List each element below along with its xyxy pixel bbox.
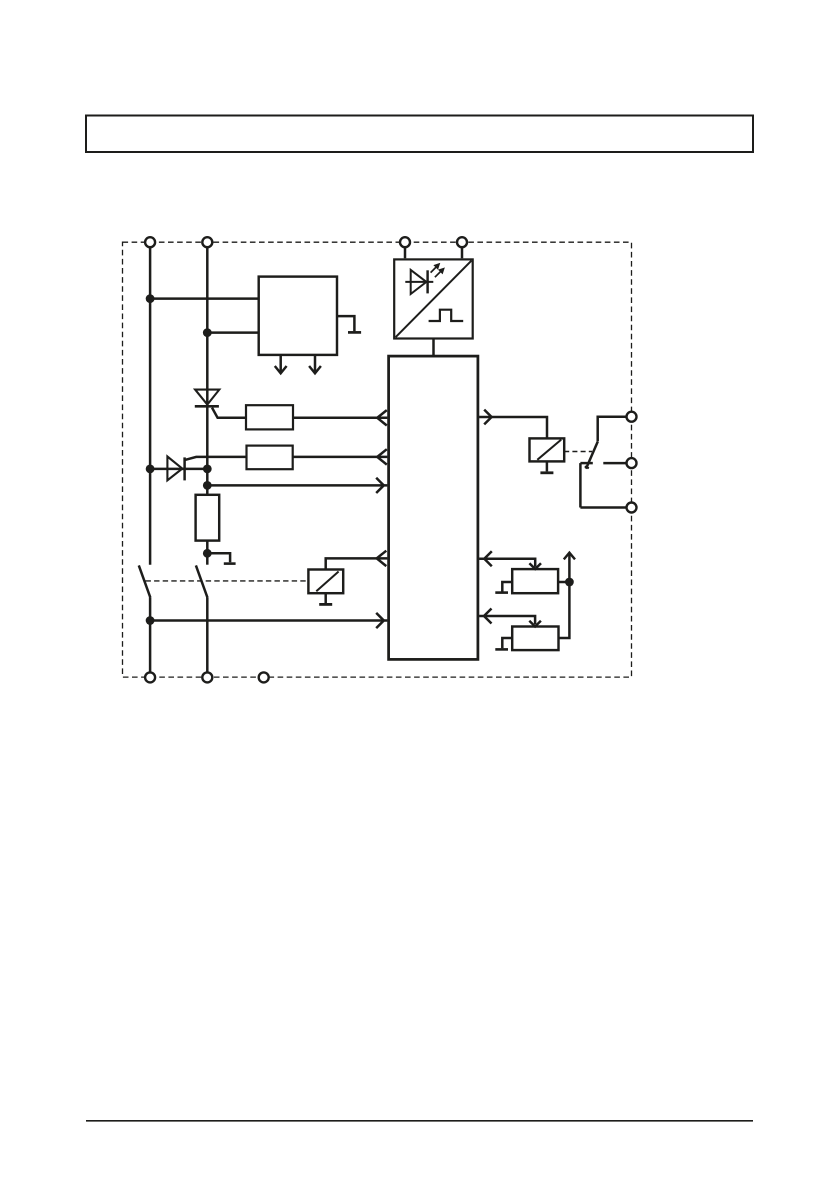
node: junction reference rail — [565, 578, 574, 587]
wire: thyristor gate to R1 — [212, 408, 246, 418]
arrow left into R1 line — [377, 410, 387, 425]
terminal X4 — [457, 237, 467, 247]
arrow down onto P1 — [529, 563, 541, 569]
resistor R3 vertical — [196, 495, 220, 541]
switch S1 — [139, 565, 151, 597]
relay K1 — [530, 438, 565, 461]
wire: pot P1 to block input — [479, 559, 535, 567]
wire: opto output to logic block — [432, 339, 435, 357]
terminal X1 — [145, 237, 155, 247]
thyristor V1 — [195, 390, 219, 405]
wire: rail1 through diode to rail2 — [150, 468, 207, 471]
power supply unit A1 — [259, 277, 337, 355]
terminal X5 — [627, 412, 637, 422]
arrow left into K2 line — [377, 551, 387, 566]
footer rule — [86, 1120, 753, 1122]
ground: step at P2 left — [502, 638, 512, 648]
wire: rail 1 to power supply input — [149, 297, 259, 300]
arrow left into block from P1 — [484, 551, 492, 566]
arrow right into block bottom input — [376, 613, 384, 628]
wire: contact middle from terminal — [603, 462, 631, 465]
wire: common to bottom terminal — [580, 506, 631, 509]
wire: diode cathode branch to R2 — [185, 457, 247, 460]
wire: R1 to logic block — [293, 417, 387, 420]
arrow right out of block to K1 — [484, 410, 491, 425]
ground: step at P1 left — [502, 582, 512, 592]
terminal X6 — [627, 458, 637, 468]
title box — [86, 116, 753, 153]
LED light arrow 2 — [435, 271, 442, 278]
wire: contact common segment — [580, 462, 592, 465]
dashed enclosure — [123, 242, 632, 677]
wire: tap to logic block input — [207, 484, 387, 487]
ground: K2 return bar — [324, 593, 327, 603]
node: junction below R3 — [203, 549, 212, 558]
wire: pot P2 to block input — [479, 616, 535, 624]
node: junction diode cathode rail2 — [203, 465, 212, 474]
terminal X9 — [202, 672, 212, 682]
optocoupler U1 — [394, 259, 473, 338]
wire: block output to relay K1 — [479, 417, 547, 438]
terminal X10 — [259, 672, 269, 682]
node: junction bottom input rail — [146, 616, 155, 625]
ground: chassis step at power supply right — [337, 316, 354, 331]
terminal X7 — [627, 503, 637, 513]
wire: K1 mechanical link dashed — [564, 451, 592, 453]
arrow right into block — [376, 478, 384, 493]
resistor R1 — [246, 405, 293, 429]
wire: second rail lower segment — [206, 597, 209, 672]
wire: contact top from terminal — [598, 417, 632, 441]
wire: R2 to logic block — [293, 456, 388, 459]
wire: P2 right to reference rail — [559, 582, 570, 638]
ground: K1 return bar — [546, 461, 549, 471]
wire: left supply rail lower segment — [149, 597, 152, 672]
node: junction rail1 feed — [146, 294, 155, 303]
supply output arrow 2 — [314, 355, 317, 372]
wire: reference rail vertical with up arrow — [568, 554, 571, 582]
wire: second rail x=207 upper — [206, 248, 209, 495]
supply output arrow 1 — [279, 355, 282, 372]
wire: left supply rail x=150 — [149, 248, 152, 565]
potentiometer P2 — [512, 627, 558, 651]
diode V2 — [167, 457, 182, 481]
wire: mechanical link dashed — [146, 580, 309, 582]
node: junction feedback tap — [203, 481, 212, 490]
pulse symbol — [429, 310, 464, 321]
relay K2 — [308, 570, 343, 594]
switch S2 — [196, 565, 208, 597]
arrow down onto P2 — [529, 621, 541, 627]
wire: K2 to logic block — [326, 558, 388, 569]
contact K1.1 blade — [586, 441, 598, 469]
wire: rail 2 to power supply input — [206, 331, 258, 334]
LED light arrow 1 — [431, 266, 438, 273]
wire: opto pin right — [461, 248, 464, 259]
LED D3 — [405, 281, 433, 283]
contact blade tick — [585, 466, 589, 468]
node: junction at rail1 diode — [146, 465, 155, 474]
wire: opto pin left — [404, 248, 407, 259]
arrow left into block from P2 — [484, 609, 492, 624]
terminal X2 — [202, 237, 212, 247]
terminal X3 — [400, 237, 410, 247]
arrow left into R2 line — [377, 449, 387, 464]
wire: common down — [579, 463, 582, 507]
ground: chassis step below R3 — [207, 553, 230, 562]
resistor R2 — [247, 446, 293, 470]
wire: bottom input line to block — [150, 619, 387, 621]
wire: second rail below resistor — [206, 541, 209, 565]
terminal X8 — [145, 672, 155, 682]
node: junction rail2 feed — [203, 328, 212, 337]
wire: P1 right to reference rail — [558, 581, 569, 584]
logic block U2 — [389, 356, 478, 659]
potentiometer P1 — [512, 569, 558, 593]
